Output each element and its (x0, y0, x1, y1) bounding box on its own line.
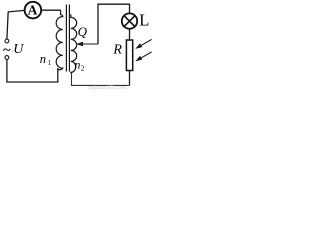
svg-text:L: L (139, 11, 149, 30)
light arrow 2 onto R (135, 52, 151, 62)
svg-text:R: R (112, 42, 122, 57)
AC tilde symbol (3, 49, 10, 51)
lamp L circle (122, 13, 137, 28)
resistor R rectangle (126, 40, 132, 71)
light arrow 1 onto R (135, 39, 151, 49)
transformer core line left (65, 5, 67, 72)
transformer primary coil n1 (56, 10, 63, 70)
svg-text:2: 2 (81, 63, 85, 72)
wire tap riser and top wire to lamp (98, 4, 130, 44)
svg-text:n: n (40, 52, 46, 66)
svg-text:U: U (13, 42, 24, 57)
ammeter A1 circle (25, 2, 42, 19)
wire lamp to resistor (129, 29, 131, 40)
terminal node bottom of source U (5, 56, 9, 60)
svg-text:Q: Q (78, 24, 88, 39)
lamp L cross line 2 (124, 16, 135, 27)
slider tap arrow on secondary (76, 42, 98, 46)
wire top-left horizontal (8, 10, 24, 12)
svg-text:zujuan.05.com: zujuan.05.com (88, 84, 126, 91)
svg-text:1: 1 (48, 59, 52, 67)
lamp L cross line 1 (124, 16, 135, 27)
transformer secondary coil n2 (71, 14, 77, 73)
wire left vertical upper (7, 11, 8, 39)
svg-text:A: A (28, 3, 38, 18)
wire bottom of secondary loop (72, 73, 130, 86)
wire left vertical lower and bottom to primary (7, 59, 58, 82)
wire resistor to bottom (129, 71, 131, 86)
svg-text:n: n (74, 58, 80, 72)
terminal node top of source U (5, 39, 9, 43)
transformer core line right (68, 5, 70, 72)
wire ammeter to transformer (41, 9, 61, 11)
